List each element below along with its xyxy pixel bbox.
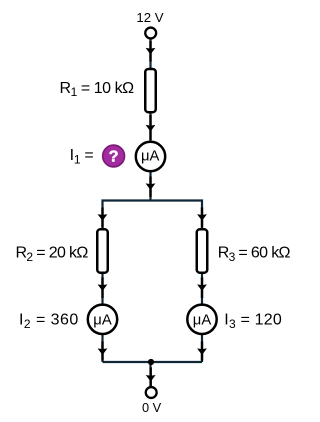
ammeter U1 <box>136 142 165 171</box>
wire ammeter U1 to split bar <box>149 170 151 201</box>
resistor R1 <box>145 69 156 112</box>
arrow into R2 <box>101 208 103 228</box>
ammeter U3 <box>187 305 216 334</box>
wire ammeter U2 to bottom bar <box>101 333 103 362</box>
arrow into bottom terminal <box>149 368 151 389</box>
resistor R3 <box>197 229 208 272</box>
svg-text:μA: μA <box>193 312 212 328</box>
arrow into ammeter U2 <box>101 278 103 299</box>
svg-text:μA: μA <box>141 149 160 165</box>
arrow into R3 <box>201 208 203 228</box>
wire R1 to ammeter U1 <box>149 111 151 158</box>
wire junction to bottom terminal <box>149 362 151 389</box>
arrow into split node <box>149 177 151 198</box>
arrow into ammeter U1 <box>149 115 151 140</box>
unknown badge ? <box>103 145 125 167</box>
resistor R2 <box>97 229 108 272</box>
terminal 0 V <box>146 387 157 398</box>
wire bottom bar <box>103 361 203 363</box>
wire ammeter U3 to bottom bar <box>201 333 203 362</box>
arrow into ammeter U3 <box>201 278 203 299</box>
junction node <box>148 359 154 365</box>
svg-text:I1 =: I1 = <box>70 147 94 166</box>
wire R2 to ammeter U2 <box>101 272 103 320</box>
wire top terminal to R1 <box>149 36 151 70</box>
arrow into right bottom corner <box>201 342 203 361</box>
svg-text:?: ? <box>109 149 119 166</box>
arrow into left bottom corner <box>101 342 103 361</box>
arrow into R1 <box>149 41 151 62</box>
ammeter U2 <box>88 305 117 334</box>
wire R3 to ammeter U3 <box>201 272 203 320</box>
svg-text:μA: μA <box>93 312 112 328</box>
svg-text:0 V: 0 V <box>142 400 162 415</box>
wire split bar with branch drops <box>103 201 203 231</box>
terminal 12 V <box>145 28 156 39</box>
svg-text:12 V: 12 V <box>136 10 163 25</box>
